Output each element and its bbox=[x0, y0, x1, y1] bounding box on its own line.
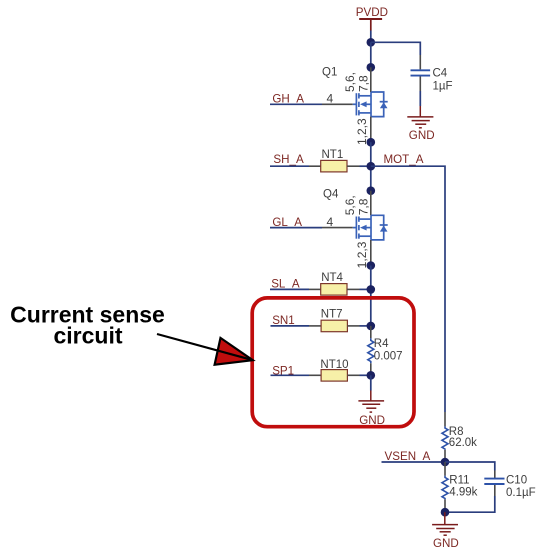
wire bbox=[371, 166, 445, 412]
pin bbox=[309, 288, 321, 290]
junction bbox=[441, 458, 450, 467]
svg-text:5,6,: 5,6, bbox=[343, 195, 357, 215]
svg-text:R4: R4 bbox=[374, 338, 389, 350]
svg-text:C10: C10 bbox=[506, 475, 527, 487]
ground (current sense) bbox=[358, 391, 384, 413]
wire bbox=[360, 325, 371, 327]
svg-text:PVDD: PVDD bbox=[356, 6, 388, 19]
svg-text:R11: R11 bbox=[449, 475, 469, 487]
net-tie NT1 bbox=[321, 149, 347, 172]
resistor R11 bbox=[442, 462, 478, 512]
wire bbox=[382, 461, 446, 463]
net-tie NT7 bbox=[321, 308, 348, 331]
highlight box current sense bbox=[252, 298, 414, 427]
transistor Q4 bbox=[322, 189, 388, 269]
wire bbox=[445, 496, 495, 512]
net-tie NT4 bbox=[321, 272, 347, 295]
wire bbox=[270, 227, 322, 229]
wire bbox=[360, 374, 371, 376]
svg-text:NT4: NT4 bbox=[321, 272, 343, 284]
capacitor C10 bbox=[484, 475, 535, 499]
ground (bottom) bbox=[432, 512, 458, 535]
wire bbox=[419, 91, 421, 106]
capacitor C4 bbox=[411, 68, 453, 93]
wire bbox=[360, 165, 371, 167]
svg-text:circuit: circuit bbox=[53, 322, 122, 348]
net-tie NT10 bbox=[320, 359, 348, 381]
wire bbox=[370, 375, 372, 390]
pin bbox=[309, 165, 321, 167]
resistor R4 bbox=[368, 326, 403, 375]
wire bbox=[371, 42, 421, 55]
junction bbox=[367, 261, 376, 270]
wire bbox=[270, 103, 322, 105]
annotation: Current sense circuit bbox=[10, 301, 165, 348]
wire bbox=[370, 31, 372, 43]
pin bbox=[309, 325, 321, 327]
arrow head bbox=[215, 338, 253, 365]
junction bbox=[367, 38, 376, 47]
wire drain pin Q4 bbox=[370, 191, 372, 216]
wire bbox=[370, 42, 372, 67]
pin bbox=[347, 165, 360, 167]
junction bbox=[367, 322, 376, 331]
wire bbox=[445, 462, 495, 471]
svg-text:62.0k: 62.0k bbox=[449, 437, 477, 449]
svg-text:7,8: 7,8 bbox=[356, 198, 370, 215]
wire drain pin Q1 bbox=[370, 67, 372, 92]
pin bbox=[309, 374, 321, 376]
pin bbox=[347, 325, 359, 327]
wire bbox=[271, 374, 310, 376]
wire bbox=[370, 142, 372, 191]
junction MOT_A bbox=[367, 162, 376, 171]
svg-text:Q1: Q1 bbox=[322, 67, 337, 79]
svg-text:4: 4 bbox=[327, 215, 334, 229]
junction bbox=[367, 138, 376, 147]
junction bbox=[441, 508, 450, 517]
svg-text:NT1: NT1 bbox=[322, 149, 344, 161]
transistor Q1 bbox=[322, 67, 388, 145]
svg-text:1µF: 1µF bbox=[433, 80, 453, 92]
svg-text:GND: GND bbox=[359, 414, 385, 427]
svg-text:C4: C4 bbox=[433, 68, 448, 80]
pin bbox=[347, 288, 360, 290]
svg-text:4.99k: 4.99k bbox=[449, 487, 477, 499]
svg-text:0.1µF: 0.1µF bbox=[506, 487, 536, 499]
svg-text:GND: GND bbox=[409, 129, 435, 142]
junction bbox=[367, 371, 376, 380]
svg-text:NT7: NT7 bbox=[321, 308, 343, 320]
resistor R8 bbox=[442, 412, 477, 462]
pin bbox=[419, 77, 421, 92]
wire bbox=[370, 266, 372, 326]
junction bbox=[367, 63, 376, 72]
wire bbox=[270, 288, 309, 290]
wire bbox=[271, 325, 310, 327]
ground (C4) bbox=[407, 106, 433, 128]
pin bbox=[494, 485, 496, 496]
svg-text:0.007: 0.007 bbox=[374, 351, 403, 363]
svg-text:GND: GND bbox=[433, 537, 459, 550]
junction bbox=[367, 186, 376, 195]
wire bbox=[270, 165, 309, 167]
pin bbox=[347, 374, 359, 376]
power PVDD bbox=[356, 6, 388, 31]
arrow line bbox=[157, 334, 253, 360]
svg-text:5,6,: 5,6, bbox=[343, 72, 357, 92]
svg-text:7,8: 7,8 bbox=[356, 75, 370, 92]
svg-text:MOT_A: MOT_A bbox=[384, 153, 424, 166]
wire bbox=[360, 288, 371, 290]
svg-text:Q4: Q4 bbox=[323, 189, 339, 201]
pin bbox=[494, 471, 496, 479]
svg-text:SH_A: SH_A bbox=[273, 153, 304, 166]
junction bbox=[367, 285, 376, 294]
pin bbox=[419, 55, 421, 69]
